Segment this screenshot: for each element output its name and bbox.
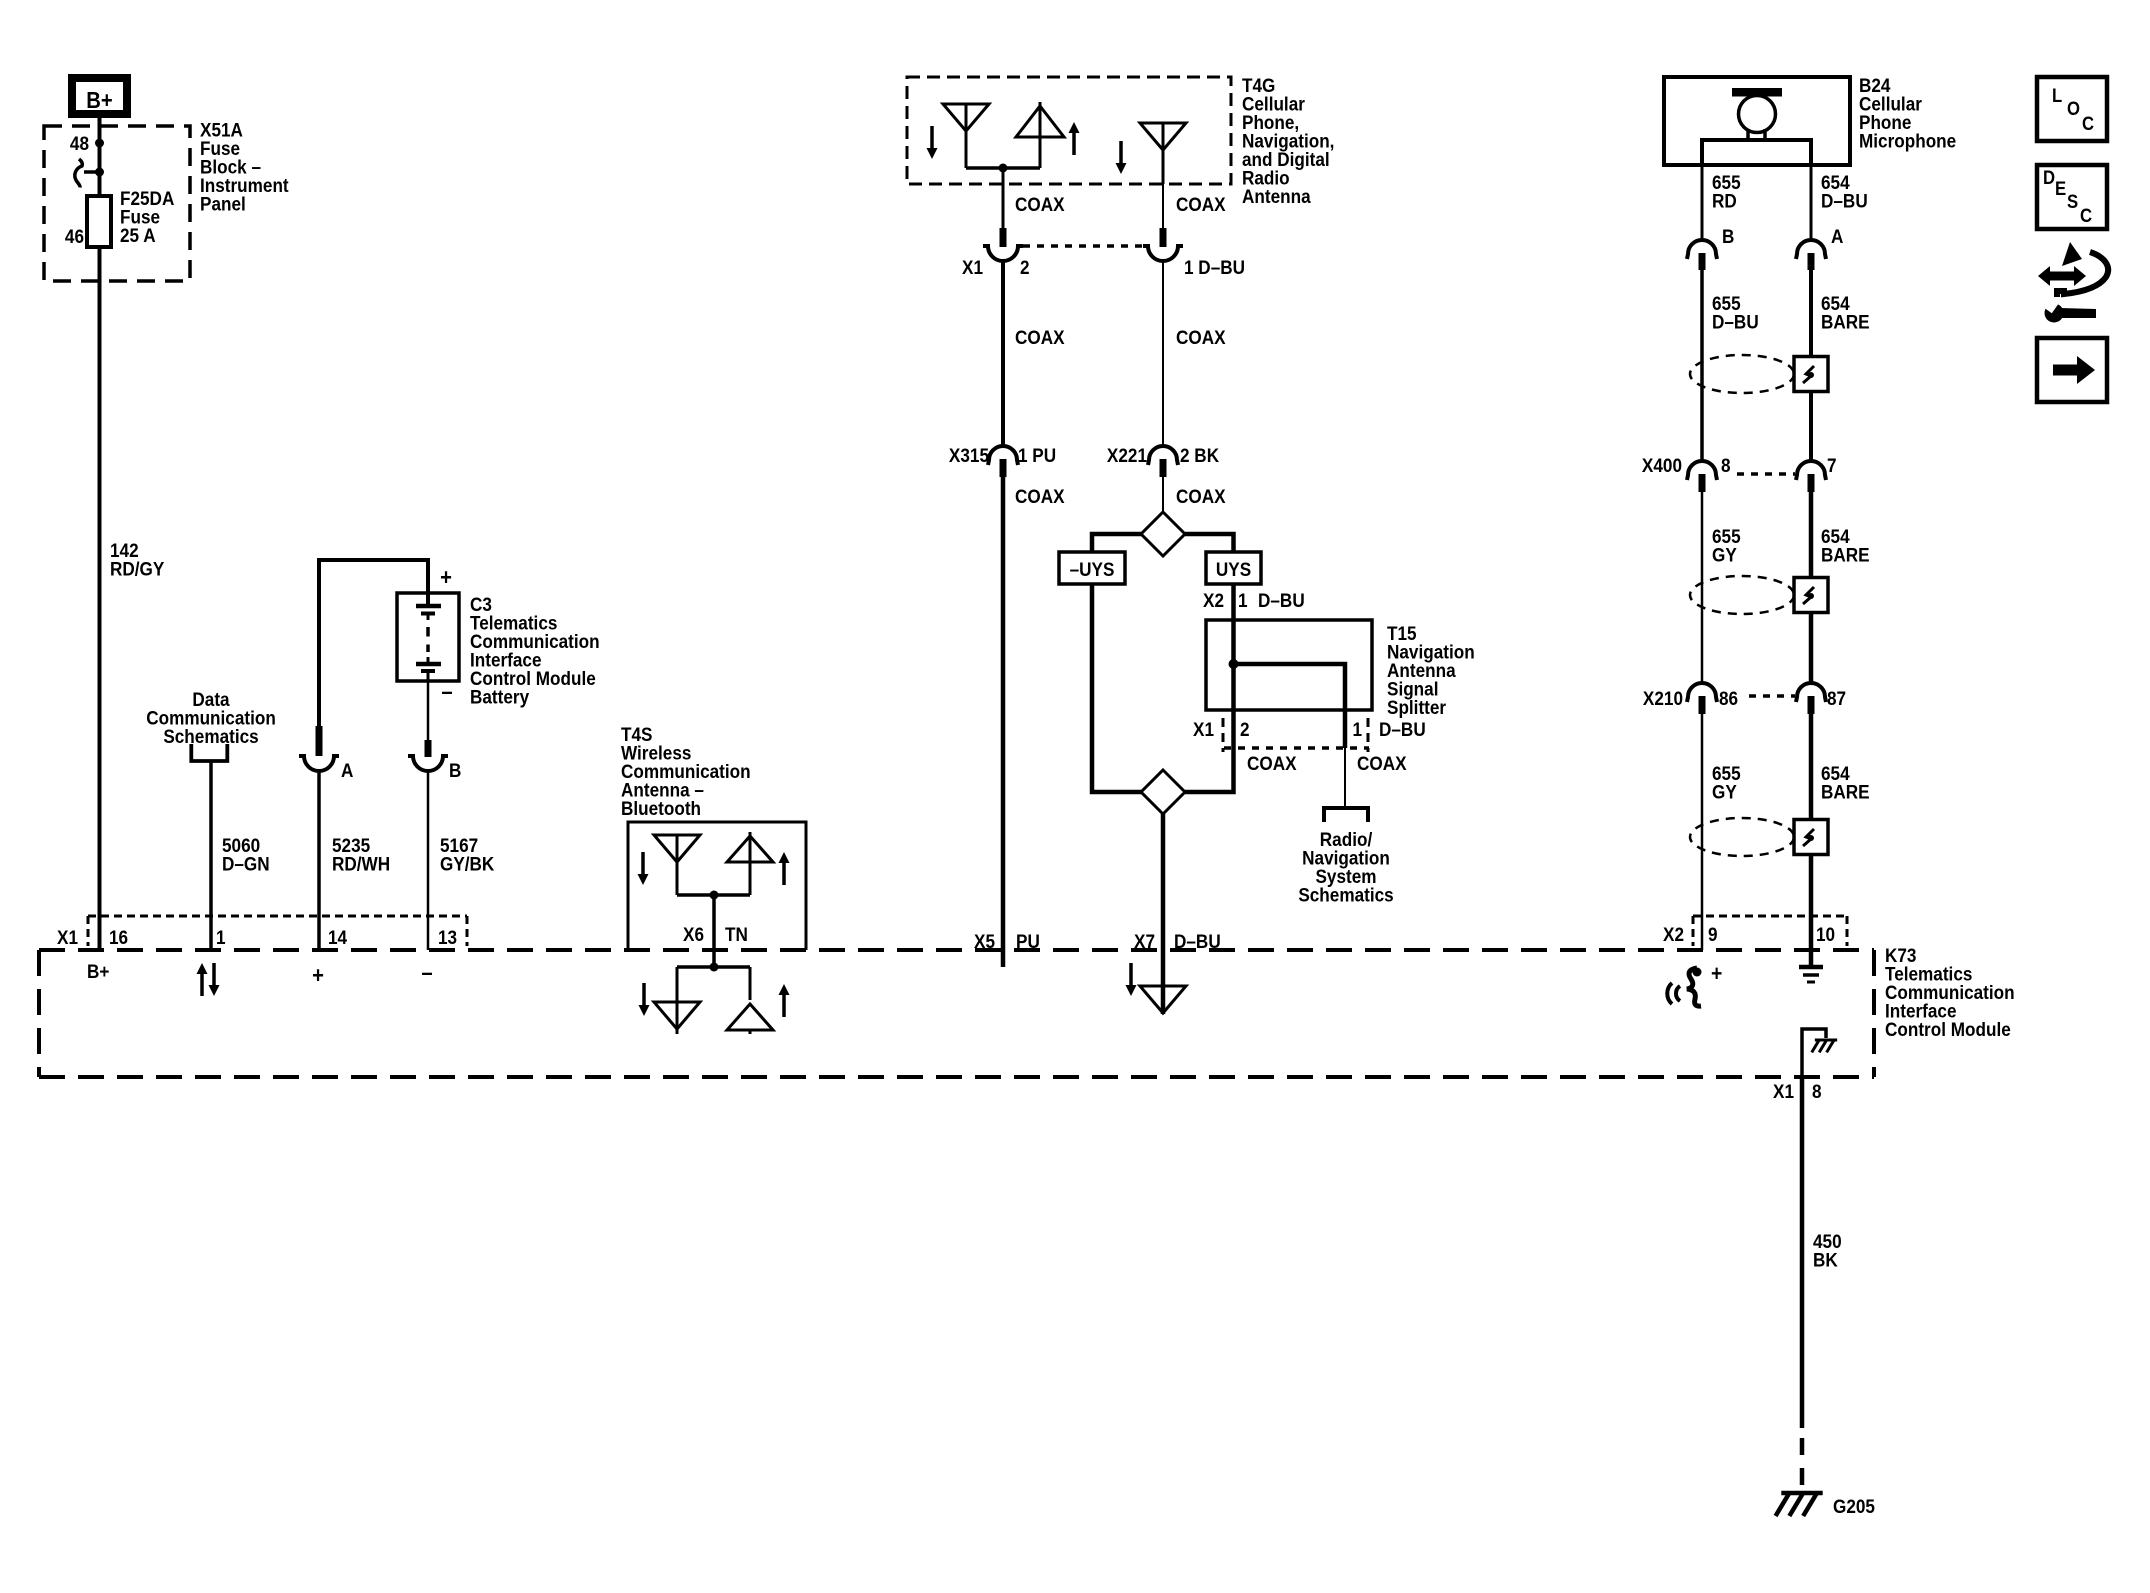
connector A pin <box>316 726 323 756</box>
svg-text:D–BU: D–BU <box>1712 310 1759 332</box>
bus symbol <box>75 159 82 188</box>
svg-text:B: B <box>449 759 461 781</box>
wire 655 RD <box>1701 165 1704 240</box>
T4S receive antenna <box>654 835 700 862</box>
svg-text:RD: RD <box>1712 189 1737 211</box>
svg-text:BK: BK <box>1813 1248 1838 1270</box>
wire to splitter diamond <box>1162 459 1164 512</box>
module serial data arrows <box>200 974 204 996</box>
svg-text:COAX: COAX <box>1247 752 1297 774</box>
splice diamond top <box>1141 512 1185 556</box>
T4S antenna box <box>628 822 806 950</box>
wire 450 BK dashed <box>1800 1438 1805 1493</box>
wire 655 GY 3 <box>1701 696 1704 950</box>
connector B pin <box>425 740 432 757</box>
wire 142 RD/GY <box>98 247 102 950</box>
wire splitter out 1 <box>1344 748 1346 808</box>
svg-text:COAX: COAX <box>1176 193 1226 215</box>
svg-text:13: 13 <box>438 926 457 948</box>
svg-text:–UYS: –UYS <box>1070 558 1115 580</box>
svg-text:1: 1 <box>1352 718 1362 740</box>
svg-text:O: O <box>2067 98 2080 119</box>
power symbol B+ <box>72 78 127 114</box>
wire 5235 RD/WH below connector <box>317 770 321 950</box>
svg-text:2: 2 <box>1240 718 1250 740</box>
svg-text:BARE: BARE <box>1821 543 1870 565</box>
wire 5235 RD/WH battery minus ... connector A <box>427 681 430 740</box>
svg-text:D–BU: D–BU <box>1821 189 1868 211</box>
svg-text:X400: X400 <box>1642 454 1682 476</box>
ground G205 <box>1781 1491 1822 1496</box>
fuse block X51A dashed outline <box>44 126 190 281</box>
wire 655 D-BU <box>1700 253 1704 461</box>
icon service double arrow <box>2048 272 2076 281</box>
svg-text:25 A: 25 A <box>120 224 156 246</box>
svg-text:Schematics: Schematics <box>1298 883 1393 905</box>
svg-text:Splitter: Splitter <box>1387 696 1446 718</box>
option box UYS <box>1206 552 1261 584</box>
wire UYS to T15 <box>1231 584 1236 748</box>
wire 654 D-BU <box>1810 165 1813 240</box>
module chassis ground branch <box>1802 1029 1826 1077</box>
svg-text:9: 9 <box>1708 923 1718 945</box>
svg-text:L: L <box>2052 85 2062 106</box>
connector X1-1 pin <box>1160 228 1167 247</box>
svg-text:1: 1 <box>1238 589 1248 611</box>
T4G radio receive antenna <box>1140 123 1186 150</box>
svg-text:2: 2 <box>1020 256 1030 278</box>
wire coax cellular 2 <box>1001 260 1005 446</box>
battery C3 box <box>397 593 459 681</box>
svg-text:+: + <box>440 564 452 591</box>
svg-text:X6: X6 <box>683 923 704 945</box>
T15 junction dot <box>1229 659 1239 669</box>
svg-text:D: D <box>2043 167 2055 188</box>
wire coax cellular <box>1002 168 1005 228</box>
svg-text:D–BU: D–BU <box>1258 589 1305 611</box>
wire coax radio <box>1162 184 1164 228</box>
svg-text:TN: TN <box>725 923 748 945</box>
T4G radio down arrow <box>1119 141 1123 163</box>
icon DESC box <box>2037 165 2107 229</box>
svg-text:48: 48 <box>70 132 89 154</box>
connector X1-1 cup <box>1143 246 1183 261</box>
junction dot bus <box>95 168 104 177</box>
svg-text:COAX: COAX <box>1176 326 1226 348</box>
svg-text:Schematics: Schematics <box>163 725 258 747</box>
T4S up arrow <box>782 863 786 885</box>
T4S transmit antenna <box>727 836 773 862</box>
svg-text:+: + <box>312 962 324 989</box>
off-page bracket radio navigation <box>1324 808 1368 822</box>
svg-text:COAX: COAX <box>1357 752 1407 774</box>
wire to -UYS option <box>1092 534 1141 552</box>
connector X210 <box>1687 683 1717 702</box>
svg-text:D–GN: D–GN <box>222 852 270 874</box>
connector X1-2 pin <box>1000 228 1007 247</box>
svg-text:46: 46 <box>65 225 84 247</box>
svg-text:X221: X221 <box>1107 444 1147 466</box>
svg-text:S: S <box>2067 191 2078 212</box>
svg-text:+: + <box>1711 962 1722 986</box>
module microphone icon <box>1667 983 1672 1004</box>
microphone symbol <box>1732 88 1782 97</box>
fuse F25DA 25A <box>87 196 111 247</box>
svg-text:X7: X7 <box>1134 930 1155 952</box>
svg-text:8: 8 <box>1721 454 1731 476</box>
battery C3 symbol <box>426 593 430 608</box>
svg-text:B+: B+ <box>87 960 109 982</box>
svg-text:X1: X1 <box>1773 1080 1794 1102</box>
connector X1 dashed outline <box>88 915 467 918</box>
module bluetooth transmit antenna <box>727 1004 773 1030</box>
T4S down arrow <box>641 852 645 874</box>
T4G transmit antenna <box>1016 106 1064 137</box>
module bluetooth receive antenna <box>676 967 679 1002</box>
svg-text:X1: X1 <box>1193 718 1214 740</box>
svg-text:16: 16 <box>109 926 128 948</box>
microphone B24 box <box>1664 77 1850 165</box>
T15 internal wire <box>1234 664 1346 748</box>
svg-text:87: 87 <box>1827 687 1846 709</box>
svg-text:GY/BK: GY/BK <box>440 852 495 874</box>
junction dot terminal 48 <box>95 139 104 148</box>
shield ellipse 2 <box>1690 576 1794 614</box>
module K73 boundary <box>39 948 1874 952</box>
wire 655 D-BU 2 <box>1701 474 1704 683</box>
connector X221 dome <box>1148 446 1178 465</box>
connector X1 splitter dashed link <box>1224 746 1369 750</box>
wire X6 TN <box>712 895 716 967</box>
svg-text:X5: X5 <box>974 930 995 952</box>
module bluetooth antenna junction <box>710 963 719 972</box>
icon service loop band <box>2057 252 2108 297</box>
connector A cup <box>299 756 339 771</box>
icon LOC box <box>2037 77 2107 141</box>
wire 654 BARE <box>1809 253 1813 461</box>
svg-text:86: 86 <box>1719 687 1738 709</box>
wire battery feed top <box>319 560 428 726</box>
module bluetooth up arrow <box>782 995 786 1017</box>
svg-text:1: 1 <box>216 926 226 948</box>
svg-text:X1: X1 <box>962 256 983 278</box>
module earth ground <box>1809 950 1814 967</box>
T15 splitter box <box>1206 620 1372 710</box>
svg-text:GY: GY <box>1712 780 1737 802</box>
connector B dome <box>1687 240 1717 259</box>
svg-text:COAX: COAX <box>1015 326 1065 348</box>
svg-text:10: 10 <box>1816 923 1835 945</box>
wire splitter out 2 <box>1185 748 1234 792</box>
connector X2 dashed outline <box>1693 915 1847 918</box>
T4G dashed box <box>907 77 1231 184</box>
svg-text:PU: PU <box>1016 930 1040 952</box>
option box -UYS <box>1059 552 1125 584</box>
svg-text:7: 7 <box>1827 454 1837 476</box>
svg-text:COAX: COAX <box>1015 193 1065 215</box>
wire 5167 GY/BK below connector <box>427 770 430 950</box>
svg-text:C: C <box>2082 113 2094 134</box>
svg-text:BARE: BARE <box>1821 310 1870 332</box>
svg-text:GY: GY <box>1712 543 1737 565</box>
svg-text:BARE: BARE <box>1821 780 1870 802</box>
svg-text:X315: X315 <box>949 444 989 466</box>
svg-text:Battery: Battery <box>470 685 530 707</box>
wire to UYS option <box>1185 534 1234 552</box>
svg-text:G205: G205 <box>1833 1495 1875 1517</box>
connector B cup <box>408 756 448 771</box>
wire 5060 D-GN <box>209 762 213 950</box>
svg-text:RD/GY: RD/GY <box>110 557 164 579</box>
svg-text:E: E <box>2055 178 2066 199</box>
svg-text:D–BU: D–BU <box>1379 718 1426 740</box>
wire X5 PU <box>1001 459 1006 967</box>
module bluetooth down arrow <box>642 983 646 1005</box>
off-page bracket data communication <box>191 744 227 761</box>
svg-text:1 PU: 1 PU <box>1018 444 1056 466</box>
T4G receive antenna <box>943 104 989 131</box>
svg-text:COAX: COAX <box>1015 485 1065 507</box>
svg-text:Bluetooth: Bluetooth <box>621 797 701 819</box>
shield ellipse 3 <box>1690 818 1794 856</box>
svg-text:2 BK: 2 BK <box>1180 444 1220 466</box>
wire X7 D-BU <box>1161 814 1166 1014</box>
svg-text:X2: X2 <box>1203 589 1224 611</box>
wire 450 BK <box>1800 1077 1805 1428</box>
wire -UYS to splice 2 <box>1092 584 1141 792</box>
svg-text:8: 8 <box>1812 1080 1822 1102</box>
T4G up arrow <box>1072 133 1076 155</box>
svg-text:Control Module: Control Module <box>1885 1018 2011 1040</box>
wire 654 BARE 2 <box>1809 474 1814 683</box>
svg-text:A: A <box>341 759 353 781</box>
svg-text:COAX: COAX <box>1176 485 1226 507</box>
wire 654 BARE 3 <box>1809 696 1814 950</box>
svg-text:D–BU: D–BU <box>1174 930 1221 952</box>
icon service wrench <box>2045 304 2064 323</box>
svg-text:Antenna: Antenna <box>1242 185 1311 207</box>
svg-text:A: A <box>1831 225 1843 247</box>
icon service loop arrowhead <box>2062 242 2082 266</box>
svg-text:X2: X2 <box>1663 923 1684 945</box>
connector X400 <box>1687 461 1717 480</box>
module radio down arrow <box>1129 963 1133 985</box>
T4G junction bar <box>966 166 1040 170</box>
svg-text:–: – <box>421 959 432 986</box>
svg-text:UYS: UYS <box>1216 558 1251 580</box>
svg-text:1 D–BU: 1 D–BU <box>1184 256 1245 278</box>
connector A dome <box>1796 240 1826 259</box>
wire coax radio 2 <box>1162 260 1164 446</box>
svg-text:X1: X1 <box>57 926 78 948</box>
svg-text:–: – <box>441 678 452 705</box>
svg-text:X210: X210 <box>1643 687 1683 709</box>
svg-text:Microphone: Microphone <box>1859 129 1956 151</box>
connector X315 dome <box>988 446 1018 465</box>
wire B+ to fuse <box>98 118 102 196</box>
icon arrow box <box>2037 338 2107 402</box>
svg-text:Panel: Panel <box>200 192 246 214</box>
svg-text:B+: B+ <box>86 87 112 114</box>
T4S junction bar <box>677 893 750 897</box>
svg-text:C: C <box>2080 205 2092 226</box>
connector X1 dashed link <box>1023 244 1143 248</box>
T4G down arrow <box>930 126 934 148</box>
shield ellipse 1 <box>1690 355 1794 393</box>
svg-text:B: B <box>1722 225 1734 247</box>
connector X1-2 cup <box>983 246 1023 261</box>
svg-text:RD/WH: RD/WH <box>332 852 390 874</box>
splice diamond bottom <box>1141 770 1185 814</box>
svg-text:14: 14 <box>328 926 348 948</box>
module radio receive antenna <box>1140 986 1186 1013</box>
